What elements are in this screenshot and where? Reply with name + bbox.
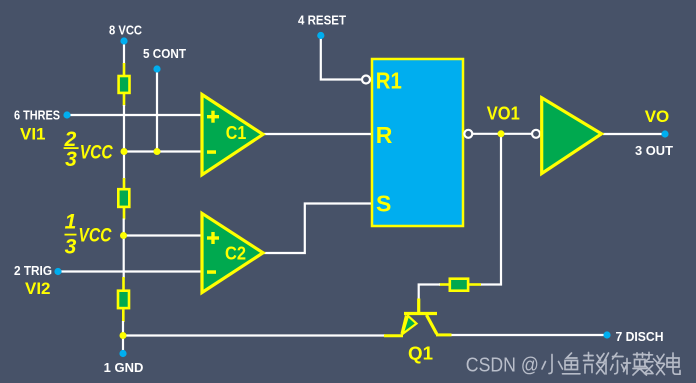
plus C2 xyxy=(207,236,219,239)
svg-text:8 VCC: 8 VCC xyxy=(109,23,143,38)
svg-text:3 OUT: 3 OUT xyxy=(635,143,673,158)
wire CONT vertical xyxy=(156,69,158,152)
wire yellow lead above R_A xyxy=(123,63,126,76)
wire 1/3 VCC node to C2 plus xyxy=(124,234,203,236)
comparator C1 xyxy=(202,95,263,175)
svg-text:3: 3 xyxy=(65,148,77,171)
svg-text:3: 3 xyxy=(65,236,77,259)
comparator C2 xyxy=(202,213,263,292)
node bottom junction dot xyxy=(120,332,127,339)
wire R_C to GND pin xyxy=(122,321,124,354)
wire yellow lead below R_A xyxy=(123,94,126,106)
node 2/3 VCC junction dot xyxy=(121,148,128,155)
pin dot 3 OUT xyxy=(661,130,668,137)
resistor R4 (base) xyxy=(450,279,468,291)
wire R_B to R_C xyxy=(123,219,125,279)
wire bottom node to Q1 emitter xyxy=(123,334,385,336)
svg-text:S: S xyxy=(376,191,391,217)
xiao xyxy=(542,355,563,374)
wire VO1 down to R4 xyxy=(480,134,501,285)
wire Q1 collector to DISCH pin xyxy=(451,334,607,336)
wire 2/3 VCC node to C1 minus xyxy=(124,150,202,152)
wire buffer output to OUT pin xyxy=(603,133,665,135)
wire Q bubble to buffer bubble xyxy=(470,133,533,135)
pin dot 1 GND xyxy=(119,350,126,357)
svg-text:Q1: Q1 xyxy=(408,344,433,364)
wire yellow lead left of R4 xyxy=(439,283,449,286)
resistor R_B (middle) xyxy=(118,189,129,207)
svg-text:1: 1 xyxy=(65,211,77,234)
svg-text:C1: C1 xyxy=(226,123,247,143)
svg-text:VI1: VI1 xyxy=(20,125,46,144)
svg-text:VI2: VI2 xyxy=(25,279,51,298)
pin dot 8 VCC xyxy=(120,37,127,44)
svg-text:VCC: VCC xyxy=(80,142,113,163)
wire yellow lead above R_B xyxy=(123,178,126,189)
svg-text:7 DISCH: 7 DISCH xyxy=(616,329,664,344)
pin dot 5 CONT xyxy=(153,65,160,72)
node 1/3 VCC junction dot xyxy=(120,232,127,239)
watermark CJK glyph strokes xyxy=(542,352,680,375)
svg-text:VCC: VCC xyxy=(78,226,111,247)
base bar xyxy=(404,312,437,315)
wire R4 to Q1 base xyxy=(419,285,440,300)
mo xyxy=(624,353,647,375)
wire yellow lead below R_C xyxy=(122,309,125,322)
collector diagonal xyxy=(427,315,437,334)
pin dot 2 TRIG xyxy=(54,268,61,275)
minus C2 xyxy=(207,270,216,274)
watermark CSDN xyxy=(466,353,539,376)
flip-flop U1 box xyxy=(372,59,463,226)
wire yellow lead above R_C xyxy=(122,277,125,290)
svg-text:VO: VO xyxy=(645,107,670,126)
pin dot 6 THRES xyxy=(63,111,70,118)
base lead xyxy=(417,299,420,313)
wire R_A to R_B xyxy=(123,105,125,179)
bubble Q output xyxy=(464,130,472,138)
node CONT junction dot xyxy=(154,148,161,155)
wire RESET to R1 bubble xyxy=(321,36,362,80)
pin dot 4 RESET xyxy=(317,32,324,39)
svg-text:2 TRIG: 2 TRIG xyxy=(14,263,52,278)
svg-text:CSDN @: CSDN @ xyxy=(466,353,539,376)
emitter diagonal xyxy=(402,316,407,335)
svg-text:C2: C2 xyxy=(225,244,246,264)
bubble buffer input xyxy=(532,130,540,138)
pin dot 7 DISCH xyxy=(603,331,610,338)
node VO1 junction dot xyxy=(498,130,505,137)
svg-text:6 THRES: 6 THRES xyxy=(14,108,60,123)
resistor R_C (bottom) xyxy=(118,291,129,308)
emitter arrowhead xyxy=(403,316,417,334)
wire THRES horizontal xyxy=(67,114,202,116)
wire yellow lead right of R4 xyxy=(469,283,481,286)
svg-text:R: R xyxy=(376,122,393,148)
shu xyxy=(645,352,665,374)
wire C1 output to R input xyxy=(263,133,372,135)
resistor R_A (top) xyxy=(119,76,130,93)
wire VCC pin to resistor R_A xyxy=(123,41,125,64)
label 2/3 VCC xyxy=(64,128,113,171)
label 1/3 VCC xyxy=(65,211,112,259)
svg-text:1 GND: 1 GND xyxy=(104,360,144,375)
emitter lead xyxy=(384,334,403,337)
wire yellow lead below R_B xyxy=(123,208,126,220)
jiao xyxy=(584,353,605,374)
collector lead xyxy=(436,333,452,336)
dian xyxy=(667,353,680,374)
yu xyxy=(563,353,581,374)
ni xyxy=(604,353,624,374)
bubble R1 input xyxy=(362,76,370,84)
output buffer U2 xyxy=(542,98,602,174)
plus C1 xyxy=(207,115,219,118)
svg-text:VO1: VO1 xyxy=(487,103,520,123)
transistor Q1 xyxy=(384,299,452,336)
minus C1 xyxy=(207,150,216,154)
svg-text:4 RESET: 4 RESET xyxy=(298,13,346,28)
wire TRIG horizontal xyxy=(58,270,202,272)
wire C2 output to S input xyxy=(263,204,372,254)
svg-text:R1: R1 xyxy=(376,68,402,94)
svg-text:5 CONT: 5 CONT xyxy=(143,46,186,61)
